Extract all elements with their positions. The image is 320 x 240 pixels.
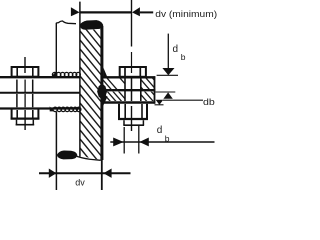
washer scallops top xyxy=(52,72,80,76)
dimension d_b bottom: arrow right xyxy=(139,138,148,147)
bolt B2 thread stub right xyxy=(142,120,144,125)
svg-text:db: db xyxy=(203,97,215,108)
weld diamond T2 at column face mid xyxy=(97,83,107,99)
dimension d_b top: surface extension line xyxy=(157,74,178,76)
bolt B1 head facet left xyxy=(16,68,18,76)
bolt B1 nut facet left xyxy=(16,110,18,118)
right plate pack mid line xyxy=(103,89,155,91)
dimension db: leader line xyxy=(163,99,203,101)
top dimension line dv minimum xyxy=(80,11,132,13)
dimension d_b top: down arrow xyxy=(162,68,174,75)
bottom dimension arrow right xyxy=(103,169,111,178)
bolt B1 centerline top xyxy=(24,57,26,73)
top dimension tail to label xyxy=(140,11,153,13)
bolt B1 centerline bottom xyxy=(24,110,26,130)
column right edge xyxy=(100,26,103,160)
left extension line upper segment (x56) xyxy=(55,23,57,74)
bolt B1 shank centerline xyxy=(24,80,26,108)
bolt B1 thread stub right xyxy=(32,120,34,125)
svg-text:d: d xyxy=(173,44,179,55)
bolt B2 nut left side xyxy=(118,104,120,120)
bolt B1 nut facet right xyxy=(32,110,34,118)
left extension line lower segment (x56) xyxy=(55,112,57,190)
dimension db: up arrow xyxy=(163,92,172,98)
svg-text:d: d xyxy=(157,125,163,136)
bolt B2 centerline bottom xyxy=(131,106,133,131)
bolt B2 shank centerline xyxy=(131,79,133,102)
dimension d_b bottom: extension line right xyxy=(138,126,140,154)
bolt B1 nut right side xyxy=(37,110,39,120)
right plate pack right edge xyxy=(154,76,156,103)
column left edge xyxy=(79,2,81,157)
top dimension arrow right xyxy=(132,7,140,16)
bolt B1 head xyxy=(12,67,39,77)
bolt B1 thread stub left xyxy=(16,120,18,125)
dimension d_b bottom: extension line left xyxy=(123,127,125,154)
bolt B2 head xyxy=(120,67,146,77)
weld triangle T3 at column face bottom xyxy=(103,96,108,107)
bolt B2 thread stub bottom xyxy=(123,124,144,126)
bottom dimension arrow left xyxy=(49,169,57,178)
right plate pack top edge xyxy=(103,76,155,78)
bolt B1 head facet right xyxy=(32,68,34,76)
weld triangle T1 at column face top xyxy=(103,67,108,78)
dimension db: mid surface extension line xyxy=(156,91,176,93)
dimension db: bottom surface tick xyxy=(155,104,164,106)
bolt B2 nut bottom edge xyxy=(118,118,148,120)
bolt B2 head facet right xyxy=(139,68,141,76)
bolt B2 nut facet right xyxy=(141,104,143,118)
bolt B2 nut facet left xyxy=(124,104,126,118)
bolt B1 shank hidden line left xyxy=(16,80,18,108)
bolt B1 thread stub bottom xyxy=(16,124,35,126)
bolt B2 thread stub left xyxy=(123,120,125,125)
svg-text:dv: dv xyxy=(75,177,85,187)
svg-text:b: b xyxy=(181,52,186,62)
washer scallops bottom xyxy=(53,107,81,111)
left plate pack top edge xyxy=(0,76,80,78)
left plate pack bottom edge xyxy=(0,107,80,109)
bolt B2 centerline top xyxy=(131,52,133,73)
washer scallops bottom left tick xyxy=(50,106,54,111)
top dimension arrow left xyxy=(71,7,80,16)
right plate pack bottom edge xyxy=(103,101,155,104)
bottom break weld blob xyxy=(57,151,77,159)
washer scallops top left tick xyxy=(52,72,57,77)
bolt B1 shank hidden line right xyxy=(32,80,34,108)
dimension d_b bottom: dimension line xyxy=(110,141,214,143)
column right edge extension to bottom xyxy=(101,160,103,190)
svg-text:b: b xyxy=(165,133,170,143)
svg-text:dv (minimum): dv (minimum) xyxy=(155,9,217,20)
dimension d_b top: leader shaft xyxy=(167,34,169,68)
top break weld blob xyxy=(80,20,103,29)
bolt B2 nut right side xyxy=(146,104,148,120)
bolt B2 head facet left xyxy=(124,68,126,76)
dimension db: down arrow xyxy=(156,100,164,105)
bolt B2 extension line to top dimension xyxy=(131,0,133,47)
column hatch xyxy=(80,0,103,176)
bolt B2 shank left edge xyxy=(124,79,126,102)
bottom break curve xyxy=(77,156,101,160)
bolt B1 nut left side xyxy=(11,110,13,120)
dimension d_b bottom: arrow left xyxy=(113,138,123,147)
left plate pack mid line xyxy=(0,92,80,94)
bottom dimension dv line xyxy=(39,172,131,174)
top break wiggle line xyxy=(56,21,76,24)
bolt B1 nut bottom edge xyxy=(11,117,40,119)
bolt B2 shank right edge xyxy=(140,79,142,102)
right plate pack hatch xyxy=(100,70,182,131)
